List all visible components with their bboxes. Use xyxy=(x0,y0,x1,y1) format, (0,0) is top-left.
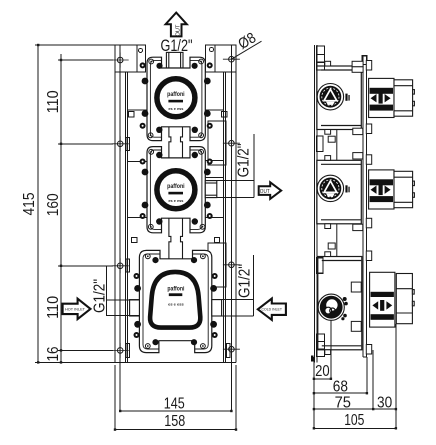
svg-text:160: 160 xyxy=(45,193,62,216)
svg-text:110: 110 xyxy=(45,296,62,319)
U1 port box top xyxy=(166,52,183,68)
U1 ear bosses xyxy=(140,62,213,128)
side U2 cylinder xyxy=(394,171,414,207)
valve unit 2 (middle) xyxy=(140,147,217,233)
svg-text:68: 68 xyxy=(333,379,348,396)
FRONT VIEW xyxy=(115,45,236,362)
U3 mixer dome xyxy=(150,272,200,328)
valve unit 1 (top) xyxy=(140,52,213,140)
flange plate xyxy=(362,56,367,358)
middle outlet callout xyxy=(207,134,254,198)
U1 side bosses xyxy=(142,63,211,133)
side rail row2 bracket xyxy=(317,136,323,152)
side U1 cartridge xyxy=(369,78,394,117)
bottom-left bracket tab xyxy=(126,344,129,358)
valve unit 3 (bottom, mixer) xyxy=(130,250,222,352)
U2 right side port xyxy=(205,181,217,198)
svg-text:Ø8: Ø8 xyxy=(235,29,259,53)
rail square hole lower-left xyxy=(132,237,137,242)
svg-text:G1/2": G1/2" xyxy=(236,143,253,177)
U2 thermostatic ring xyxy=(157,171,195,209)
HOT INLET arrow xyxy=(63,299,91,319)
mounting screw row3 left xyxy=(112,258,129,273)
right rail xyxy=(224,45,236,362)
cold inlet callout xyxy=(212,255,253,316)
svg-text:30: 30 xyxy=(377,395,393,412)
side rail bottom tabs xyxy=(311,334,325,362)
row3 right bracket xyxy=(208,243,226,287)
U3 corner screws xyxy=(145,254,205,349)
dim 68 xyxy=(314,357,367,393)
gap connector U1-U2 xyxy=(328,130,337,161)
G1/2 top label xyxy=(161,37,193,55)
U2 ear bosses xyxy=(140,159,213,220)
U3 ear bosses xyxy=(134,273,218,338)
U1 corner screws xyxy=(148,59,203,138)
side unit 1 body xyxy=(317,66,362,130)
hot inlet callout xyxy=(107,266,140,316)
side rail top tabs xyxy=(317,46,325,70)
U3 left inlet port xyxy=(130,300,140,316)
mounting screw row1 right (Ø8) xyxy=(223,52,240,67)
dim 75 and 30 xyxy=(314,324,396,428)
side U3 cartridge xyxy=(370,272,395,327)
gap connector U2-U3 xyxy=(328,224,337,257)
left rail xyxy=(115,45,236,362)
mounting screw row2 left xyxy=(112,136,129,151)
svg-text:158: 158 xyxy=(164,413,185,430)
side U1 top bolts xyxy=(325,61,372,135)
svg-text:OUT: OUT xyxy=(260,189,271,195)
svg-text:415: 415 xyxy=(21,193,38,216)
U3 side bosses xyxy=(134,257,217,345)
U2 corner screws xyxy=(148,149,205,229)
OUT arrow top xyxy=(166,13,187,37)
rail square hole upper-right xyxy=(221,112,227,118)
top-left mounting bracket xyxy=(115,45,146,72)
mounting screw row4 left xyxy=(112,343,129,358)
svg-text:16: 16 xyxy=(45,347,62,362)
svg-text:es e ess: es e ess xyxy=(168,107,183,111)
side U1 cylinder xyxy=(394,80,414,116)
connector U1-U2 xyxy=(169,127,183,158)
dim 20 xyxy=(314,320,331,428)
row2 left bracket tab xyxy=(126,138,129,151)
svg-text:paffoni: paffoni xyxy=(167,184,185,190)
svg-text:OUT: OUT xyxy=(175,24,181,36)
SIDE VIEW xyxy=(311,45,367,362)
OUT arrow right xyxy=(259,182,282,199)
row2 right bracket xyxy=(208,121,226,165)
side rail xyxy=(314,45,316,362)
svg-text:es e ess: es e ess xyxy=(168,199,183,203)
rail-plate link lines left xyxy=(127,110,147,217)
dim 105 xyxy=(314,427,396,429)
COLD INLET arrow xyxy=(258,299,286,320)
bottom-right bracket tab xyxy=(227,344,230,358)
rail square hole lower-right xyxy=(214,237,219,242)
dim 158 xyxy=(115,365,236,430)
svg-text:G1/2": G1/2" xyxy=(92,279,109,313)
svg-text:paffoni: paffoni xyxy=(167,92,185,98)
connector U2-U3 xyxy=(169,218,183,259)
svg-text:G1/2": G1/2" xyxy=(237,264,254,298)
U1 thermostatic ring xyxy=(157,79,195,117)
side unit 2 body xyxy=(317,160,362,224)
row3 left bracket tab xyxy=(126,259,129,272)
mounting screw row3 right xyxy=(223,257,240,272)
dim chain line 110/160/110/16 xyxy=(58,54,113,362)
side U1 logo circle xyxy=(317,84,350,110)
svg-text:HOT INLET: HOT INLET xyxy=(65,307,86,311)
side U2 logo circle xyxy=(317,175,350,201)
side rail row3 bracket xyxy=(317,258,323,274)
U1 plate xyxy=(147,57,205,140)
svg-text:COLD INLET: COLD INLET xyxy=(262,308,283,312)
svg-text:20: 20 xyxy=(315,363,330,380)
rail-plate link lines right xyxy=(205,110,223,217)
side U2 cartridge xyxy=(369,170,394,209)
dim 415 vertical line xyxy=(35,45,115,362)
svg-text:145: 145 xyxy=(164,396,185,413)
top-right mounting bracket xyxy=(206,45,237,72)
DIMENSIONS xyxy=(35,45,396,430)
side U3 knob xyxy=(318,294,348,320)
U3 right inlet port xyxy=(212,300,222,316)
U3 plate xyxy=(139,250,211,352)
side U3 cylinder xyxy=(396,274,414,324)
svg-text:paffoni: paffoni xyxy=(167,286,184,292)
mounting screw row2 right xyxy=(223,136,240,151)
U2 side bosses xyxy=(142,152,211,225)
svg-text:75: 75 xyxy=(335,395,351,412)
svg-text:es e ess: es e ess xyxy=(168,302,184,306)
Ø8 label xyxy=(231,29,261,59)
svg-text:G1/2": G1/2" xyxy=(161,37,193,55)
rail square hole upper-left xyxy=(129,112,135,118)
side unit 3 body xyxy=(318,257,362,350)
mounting screw row4 right xyxy=(223,342,240,357)
dimension ticks xyxy=(37,44,397,431)
svg-text:110: 110 xyxy=(45,90,62,113)
side U3 bolts xyxy=(325,251,372,355)
side U2 bolts xyxy=(325,153,372,231)
U2 plate xyxy=(147,147,205,233)
svg-text:105: 105 xyxy=(344,412,364,429)
mounting screw row1 left xyxy=(112,53,129,68)
dim 145 xyxy=(120,354,231,411)
